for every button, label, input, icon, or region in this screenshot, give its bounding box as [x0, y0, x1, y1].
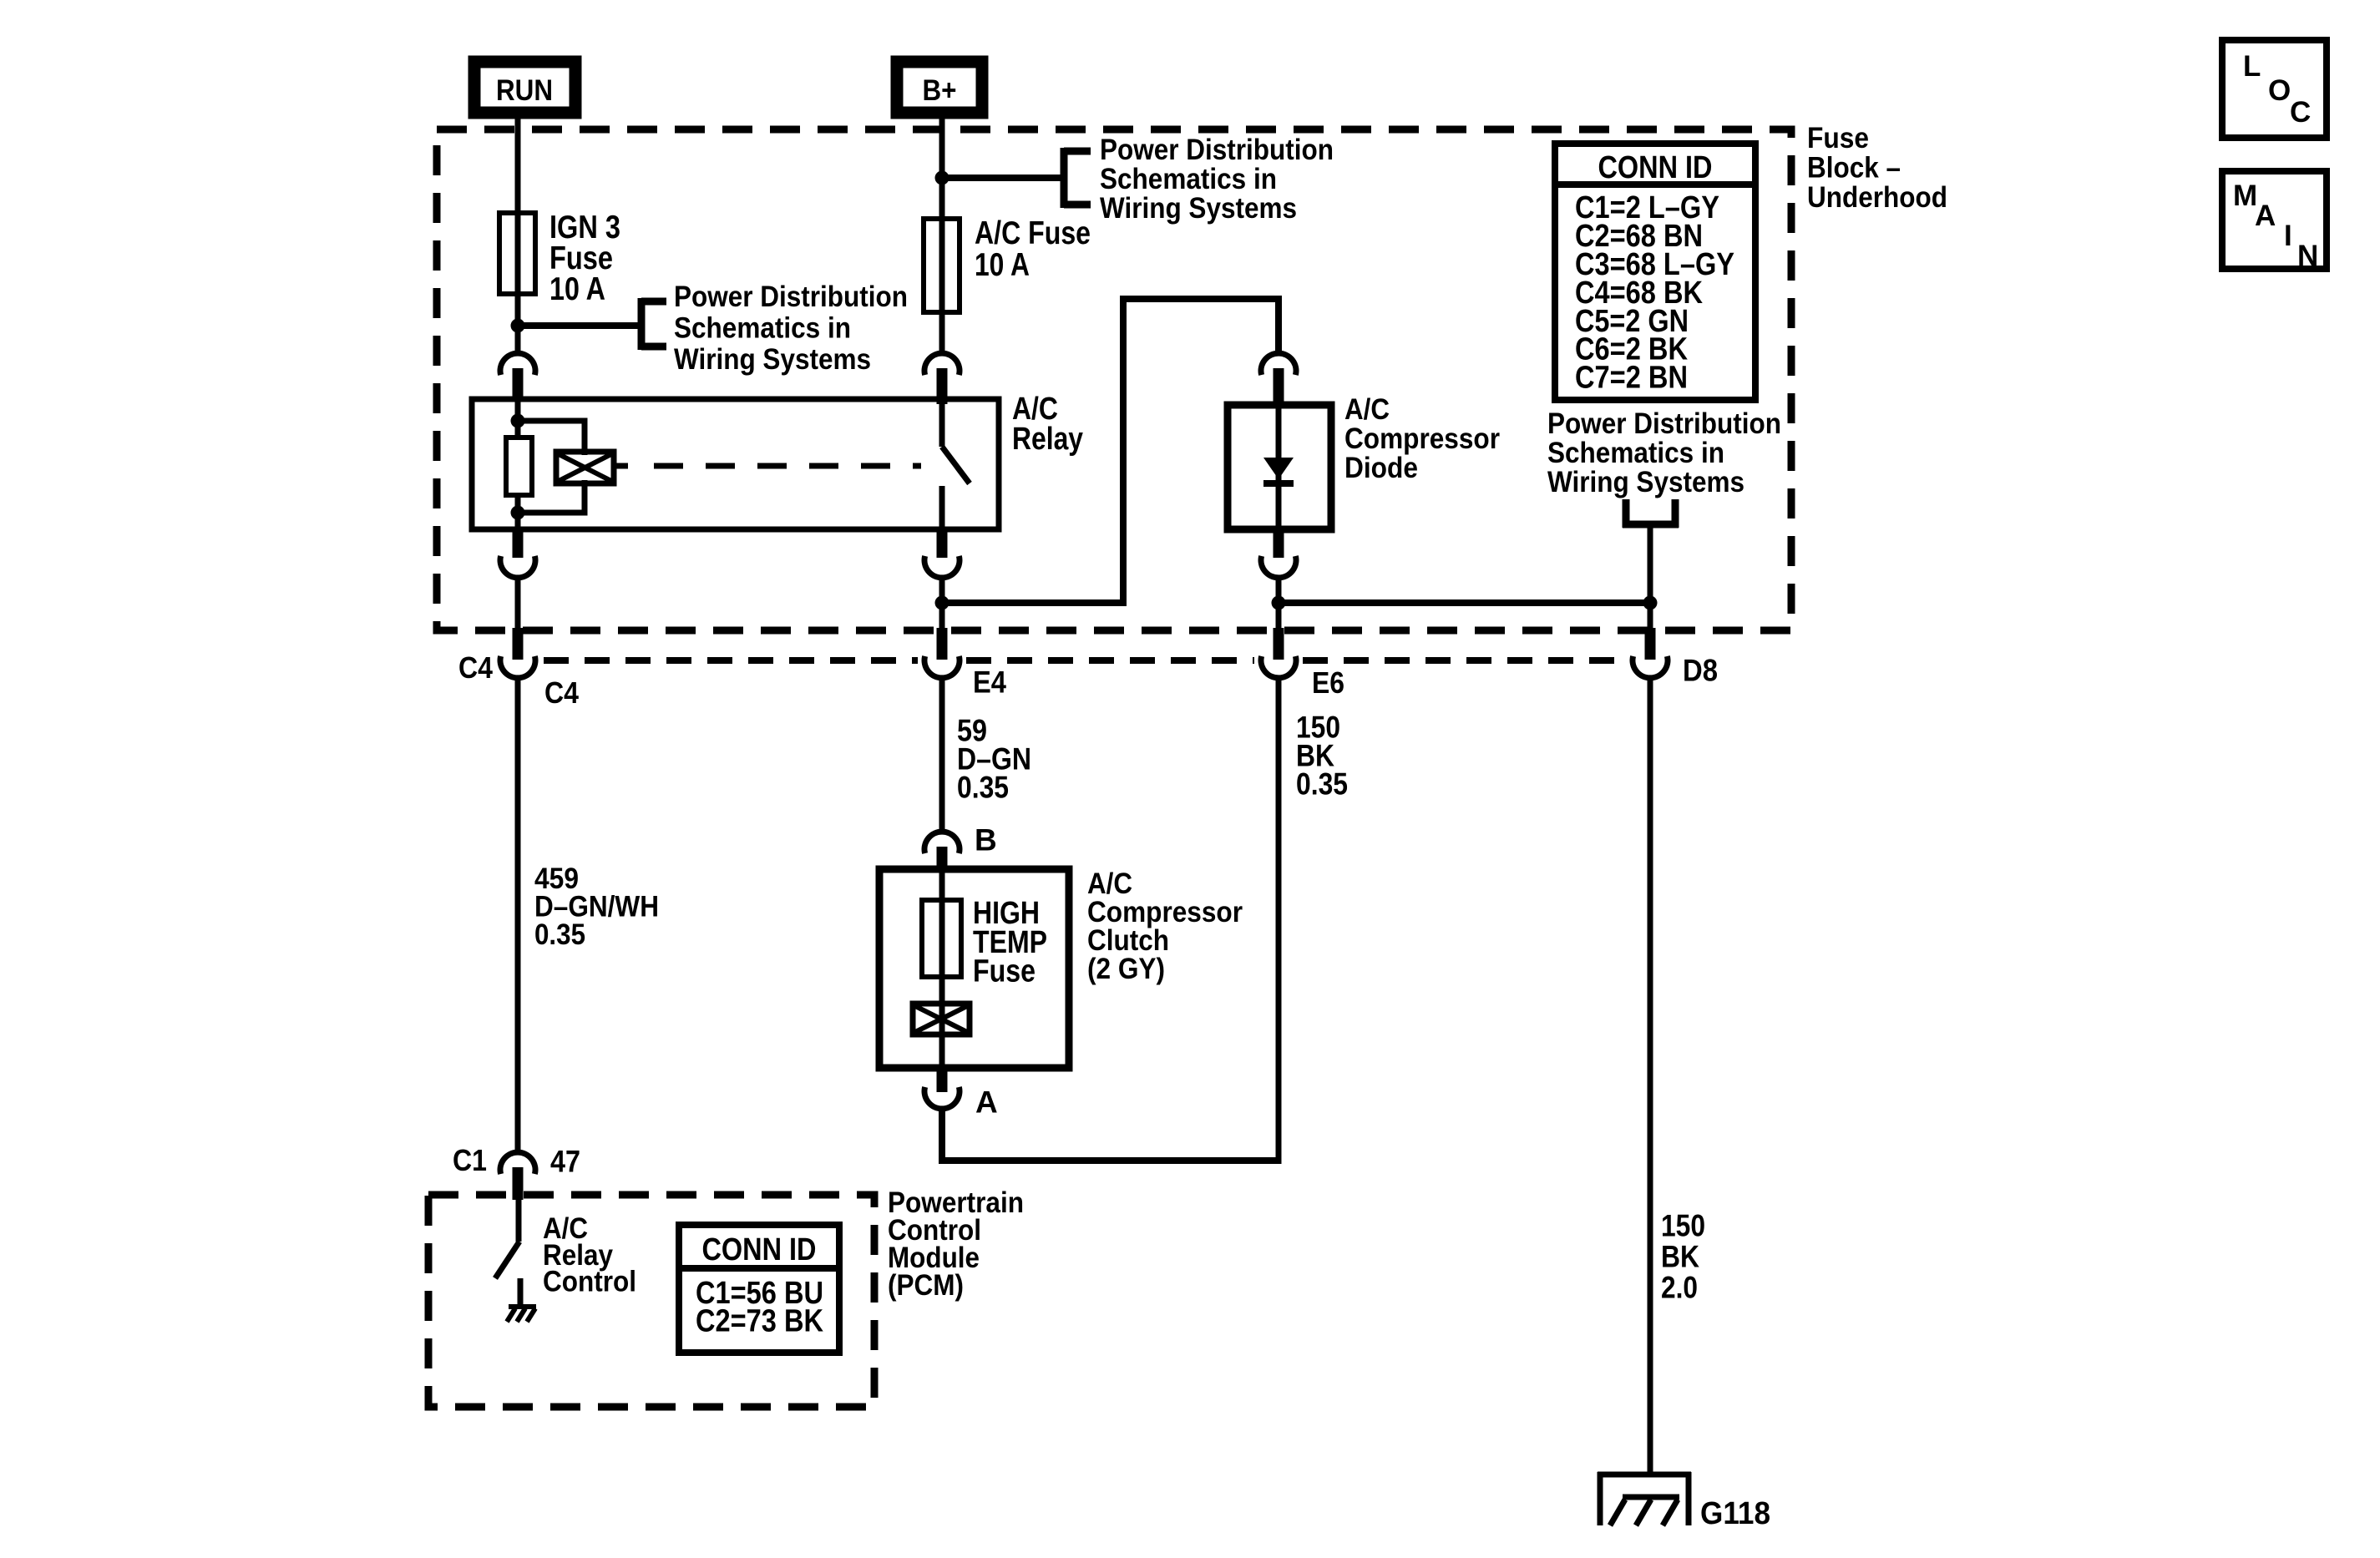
label A/C Fuse 10 A	[975, 215, 1091, 283]
svg-text:(PCM): (PCM)	[888, 1269, 964, 1302]
svg-text:Compressor: Compressor	[1344, 422, 1500, 455]
connector half (dome) at clutch pin B	[924, 832, 960, 853]
connector half (dome) above diode	[1261, 353, 1296, 375]
svg-text:D8: D8	[1683, 654, 1718, 688]
relay coil (box with X)	[556, 452, 614, 483]
diode box A/C Compressor Diode	[1228, 405, 1331, 529]
connector half (cup) E4 row	[924, 656, 960, 678]
terminal stub at connector C4	[513, 628, 524, 660]
wire branch to relay coil (bottom)	[518, 480, 585, 513]
label E6	[1312, 665, 1344, 700]
in-line connector row dashed line	[544, 657, 1623, 664]
clutch box A/C Compressor Clutch	[879, 869, 1069, 1068]
svg-text:0.35: 0.35	[957, 771, 1009, 805]
svg-text:E4: E4	[973, 665, 1006, 700]
svg-text:A/C Fuse: A/C Fuse	[975, 215, 1091, 251]
bracket below fuse block callout	[1623, 499, 1679, 528]
svg-text:B: B	[975, 823, 997, 857]
terminal stub at connector E6	[1274, 628, 1284, 660]
power symbol RUN (ignition feed box)	[474, 62, 575, 113]
label wire 459 D-GN/WH 0.35	[534, 862, 659, 951]
svg-text:A: A	[975, 1085, 998, 1120]
svg-text:C: C	[2290, 96, 2311, 129]
label Fuse Block - Underhood	[1807, 122, 1947, 214]
label Powertrain Control Module (PCM)	[888, 1186, 1024, 1302]
wire A/C relay control inside PCM	[516, 1200, 522, 1242]
svg-text:N: N	[2297, 240, 2318, 272]
CONN ID table of fuse block	[1555, 144, 1755, 400]
terminal stub into diode box	[1274, 368, 1284, 405]
wire PCM switch to ground	[518, 1278, 524, 1307]
junction dot relay coil top	[511, 414, 525, 428]
svg-text:Fuse: Fuse	[973, 954, 1036, 989]
label wire 59 D-GN 0.35	[957, 714, 1031, 805]
label HIGH TEMP Fuse	[973, 896, 1047, 989]
fuse A/C 10A	[924, 219, 960, 312]
svg-text:Wiring Systems: Wiring Systems	[1547, 466, 1744, 498]
relay switch contact (bottom)	[939, 486, 945, 529]
CONN ID table of PCM	[679, 1225, 839, 1353]
relay box A/C Relay	[472, 399, 999, 529]
svg-text:Relay: Relay	[1012, 422, 1083, 457]
wire relay switch output	[939, 580, 945, 630]
wire through clutch box	[939, 869, 945, 1068]
wire relay coil top feed	[515, 399, 521, 438]
ground symbol inside PCM	[507, 1307, 536, 1322]
label A/C Compressor Clutch (2 GY)	[1087, 868, 1243, 985]
svg-text:C4: C4	[544, 675, 579, 710]
wire circuit 59 from E4 to clutch	[939, 680, 945, 829]
svg-text:A: A	[2255, 200, 2276, 232]
wire relay coil bottom	[515, 495, 521, 529]
svg-text:A/C: A/C	[1344, 393, 1390, 426]
ground symbol G118	[1598, 1472, 1691, 1525]
svg-text:Power Distribution: Power Distribution	[674, 281, 908, 313]
svg-text:0.35: 0.35	[1296, 767, 1348, 802]
connector half (cup) below diode	[1261, 556, 1296, 578]
label pin B	[975, 823, 997, 857]
svg-text:Diode: Diode	[1344, 452, 1418, 484]
wire branch to relay coil (top)	[518, 421, 585, 455]
label wire 150 BK 0.35	[1296, 711, 1348, 802]
MAIN marker box	[2222, 171, 2327, 272]
wire clutch return to E6 column	[942, 1111, 1279, 1161]
svg-text:(2 GY): (2 GY)	[1087, 953, 1165, 985]
svg-text:C4: C4	[458, 650, 493, 685]
wire ground bus to D8 column	[1279, 599, 1650, 606]
svg-text:Power Distribution: Power Distribution	[1100, 134, 1334, 166]
label C1 (PCM connector)	[453, 1143, 487, 1177]
connector half (dome) on B+ wire at relay	[924, 353, 960, 375]
svg-text:47: 47	[550, 1145, 580, 1179]
svg-text:L: L	[2243, 50, 2261, 83]
wire circuit 150 from E6 down	[1276, 680, 1282, 1164]
svg-text:2.0: 2.0	[1661, 1271, 1698, 1305]
svg-text:Schematics in: Schematics in	[1100, 163, 1277, 195]
svg-text:Control: Control	[543, 1266, 636, 1298]
wire diode-top branch (riser and across)	[1123, 299, 1279, 606]
label C4 (left of connector)	[458, 650, 493, 685]
junction dot below B+	[935, 171, 949, 185]
svg-text:Underhood: Underhood	[1807, 181, 1947, 214]
label E4	[973, 665, 1006, 700]
label pin 47	[550, 1145, 580, 1179]
wire from relay coil to connector C4	[515, 580, 521, 630]
terminal stub into relay (B+ side)	[937, 368, 948, 404]
wire from callout bracket to ground bus	[1648, 524, 1653, 630]
svg-text:E6: E6	[1312, 665, 1344, 700]
label pin A	[975, 1085, 998, 1120]
label A/C Compressor Diode	[1344, 393, 1500, 484]
label A/C Relay Control	[543, 1212, 636, 1297]
connector half (cup) D8 row	[1633, 656, 1668, 678]
wire switched output bus to diode branch	[942, 599, 1123, 606]
diode symbol triangle	[1263, 458, 1294, 479]
svg-text:10 A: 10 A	[975, 247, 1030, 283]
svg-text:G118: G118	[1700, 1496, 1770, 1531]
svg-text:CONN ID: CONN ID	[702, 1232, 817, 1267]
dashed actuation link from coil to switch	[614, 463, 921, 469]
svg-text:C2=73 BK: C2=73 BK	[696, 1304, 823, 1339]
terminal stub into clutch box	[937, 847, 948, 869]
power symbol B+ (battery feed box)	[897, 62, 982, 113]
svg-text:C7=2 BN: C7=2 BN	[1575, 361, 1688, 396]
label Power Distribution Schematics in Wiring Systems (IGN 3)	[674, 281, 908, 376]
diode symbol cathode bar	[1263, 480, 1294, 487]
connector half (cup) E6 row	[1261, 656, 1296, 678]
junction dot ground bus at diode column	[1272, 596, 1286, 610]
svg-text:Schematics in: Schematics in	[674, 312, 851, 345]
svg-text:B+: B+	[923, 74, 957, 107]
resistor inside relay	[506, 438, 532, 495]
bracket for power distribution callout (B+)	[1064, 148, 1091, 208]
svg-text:M: M	[2233, 180, 2257, 212]
svg-text:O: O	[2268, 74, 2291, 107]
fuse IGN 3 10A	[499, 213, 535, 294]
junction dot relay coil bottom	[511, 506, 525, 520]
junction dot switched output bus	[935, 596, 949, 610]
label C4 (below connector)	[544, 675, 579, 710]
svg-text:150: 150	[1661, 1209, 1705, 1243]
terminal stub at connector E4	[937, 628, 948, 660]
wire circuit 459 from C4 to PCM	[515, 680, 521, 1152]
PCM driver switch blade	[495, 1242, 519, 1278]
wire B+ feed down into fuse block	[939, 119, 945, 351]
wire branch to power distribution callout (IGN 3)	[518, 322, 641, 329]
svg-text:Wiring Systems: Wiring Systems	[674, 343, 871, 376]
wire through diode box	[1276, 405, 1282, 529]
terminal stub into relay (IGN 3 side)	[513, 368, 524, 399]
svg-text:Power Distribution: Power Distribution	[1547, 407, 1781, 440]
label IGN 3 Fuse 10 A	[549, 210, 620, 307]
terminal stub out of relay (switch side)	[937, 529, 948, 558]
svg-text:BK: BK	[1661, 1240, 1699, 1274]
label Power Distribution Schematics in Wiring Systems (B+)	[1100, 134, 1334, 225]
PCM dashed outline	[428, 1195, 874, 1407]
wire branch to power distribution callout (B+)	[942, 175, 1064, 181]
terminal stub into PCM	[513, 1167, 524, 1200]
connector half (dome) on IGN 3 wire at relay	[500, 353, 535, 375]
junction dot ground bus at D8 column	[1643, 596, 1658, 610]
wire diode bottom to ground bus	[1276, 580, 1282, 630]
label wire 150 BK 2.0	[1661, 1209, 1705, 1305]
connector half (cup) below relay coil side	[500, 556, 535, 578]
terminal stub at connector D8	[1645, 628, 1656, 660]
connector half (cup) at clutch pin A	[924, 1087, 960, 1109]
svg-text:10 A: 10 A	[549, 271, 605, 307]
label D8	[1683, 654, 1718, 688]
terminal stub out of diode box	[1274, 529, 1284, 558]
bracket for power distribution callout (IGN 3)	[641, 298, 666, 350]
wire RUN feed down to fuse block	[515, 119, 521, 351]
connector half (cup) below relay switch side	[924, 556, 960, 578]
svg-text:I: I	[2284, 220, 2292, 252]
connector half (cup) C4 row	[500, 656, 535, 678]
label Power Distribution Schematics in Wiring Systems (fuse block)	[1547, 407, 1781, 498]
fuse HIGH TEMP inside clutch	[922, 900, 961, 977]
label G118	[1700, 1496, 1770, 1531]
terminal stub out of relay (coil side)	[513, 529, 524, 558]
wire circuit 150 BK 2.0 to ground	[1648, 680, 1653, 1475]
svg-text:0.35: 0.35	[534, 918, 585, 951]
relay switch blade	[942, 447, 970, 483]
connector half (dome) at PCM pin 47	[500, 1152, 535, 1174]
clutch coil (box with X)	[913, 1004, 970, 1034]
fuse block - underhood dashed outline	[437, 129, 1791, 630]
svg-text:RUN: RUN	[496, 74, 553, 107]
relay switch fixed contact (top)	[939, 404, 945, 447]
svg-text:Block –: Block –	[1807, 152, 1901, 185]
svg-text:Fuse: Fuse	[1807, 122, 1869, 154]
LOC marker box	[2222, 40, 2327, 138]
svg-text:Wiring Systems: Wiring Systems	[1100, 192, 1297, 225]
svg-text:Schematics in: Schematics in	[1547, 437, 1724, 469]
label A/C Relay	[1012, 392, 1083, 457]
junction dot below IGN 3 fuse	[511, 319, 525, 333]
svg-text:CONN ID: CONN ID	[1598, 150, 1713, 185]
terminal stub out of clutch box	[937, 1068, 948, 1092]
svg-text:C1: C1	[453, 1143, 487, 1177]
